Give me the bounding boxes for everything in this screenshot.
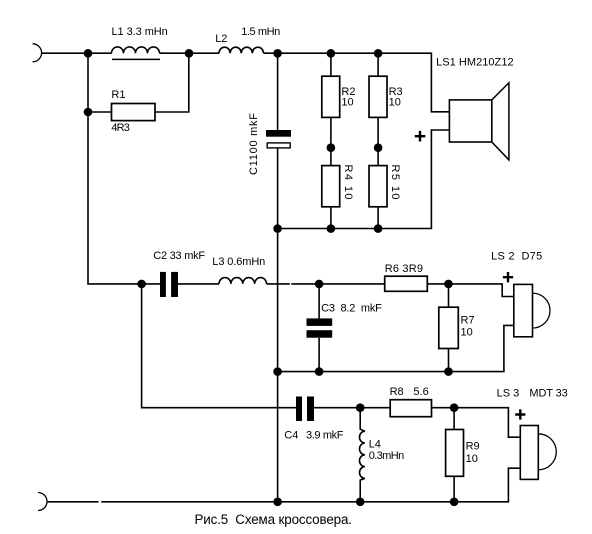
wire C1 top <box>277 53 279 130</box>
wire bottom rail <box>48 468 521 502</box>
node dot L4 bottom <box>356 498 365 507</box>
wire bottom rail of top section to LS1 lower <box>278 130 450 229</box>
resistor R6 <box>385 276 428 291</box>
svg-text:C2 33 mkF: C2 33 mkF <box>153 250 205 262</box>
svg-text:L2: L2 <box>215 33 227 45</box>
resistor R5 <box>369 166 387 207</box>
wire L3 to cross <box>267 283 290 285</box>
svg-text:3.9 mkF: 3.9 mkF <box>306 429 344 441</box>
svg-text:LS 3: LS 3 <box>497 387 520 399</box>
wire C1 bottom <box>277 148 279 228</box>
input terminal bottom <box>38 493 47 511</box>
inductor L3 <box>219 278 267 284</box>
node dot R2-R4 <box>327 143 336 152</box>
wire long vertical node <box>277 229 279 502</box>
node dot C1 bottom <box>273 224 282 233</box>
node dot R9 top <box>450 403 459 412</box>
svg-text:R1: R1 <box>111 89 125 101</box>
svg-text:LS 2 D75: LS 2 D75 <box>491 250 542 262</box>
svg-text:10: 10 <box>389 97 401 109</box>
node dot mid rail left <box>273 367 282 376</box>
svg-text:L4: L4 <box>369 438 381 450</box>
speaker LS1 box <box>449 100 491 142</box>
svg-text:R8: R8 <box>390 386 404 398</box>
svg-text:L3 0.6mHn: L3 0.6mHn <box>212 256 265 268</box>
input terminal top <box>33 44 42 62</box>
resistor R3 <box>369 76 387 117</box>
plus LS1 <box>415 131 426 142</box>
node dot L4 top <box>356 403 365 412</box>
wire C2 junction down and C4 row <box>142 284 296 408</box>
capacitor C1 plate bottom (hollow) <box>267 143 290 148</box>
svg-text:L1 3.3 mHn: L1 3.3 mHn <box>112 26 168 38</box>
wire left vertical to C2 row <box>88 53 160 284</box>
wire R6 to LS2 upper <box>427 284 514 297</box>
L1 core bar <box>112 58 160 60</box>
capacitor C1 plate top (filled) <box>266 130 291 137</box>
wire R1 left <box>88 111 112 113</box>
speaker LS3 box <box>520 426 538 480</box>
node dot C3 bottom <box>315 367 324 376</box>
node dot R7 bottom <box>444 367 453 376</box>
wire R8 to LS3 upper <box>432 408 521 438</box>
capacitor C4 plates <box>296 397 302 422</box>
node dot L1 right <box>185 49 194 58</box>
svg-text:C4: C4 <box>284 429 298 441</box>
svg-text:0.3mHn: 0.3mHn <box>369 450 405 462</box>
node dot C1 top <box>273 49 282 58</box>
svg-text:R4 10: R4 10 <box>342 165 354 200</box>
svg-text:MDT 33: MDT 33 <box>529 387 567 399</box>
node dot R5 bottom <box>374 224 383 233</box>
speaker LS2 box <box>514 284 533 336</box>
plus LS2 <box>503 272 513 282</box>
node dot R1 left <box>84 108 93 117</box>
capacitor C2 plates <box>160 272 166 297</box>
wire mid bottom rail to LS2 lower <box>278 325 514 371</box>
wire R1 right up <box>155 53 189 112</box>
svg-text:4R3: 4R3 <box>111 122 129 134</box>
inductor L2 <box>219 47 263 53</box>
speaker LS2 dome <box>533 293 551 328</box>
plus LS3 <box>515 409 525 419</box>
node dot C2 left <box>137 280 146 289</box>
svg-text:R9: R9 <box>466 441 480 453</box>
node dot R4 bottom <box>327 224 336 233</box>
svg-text:C3 8.2 mkF: C3 8.2 mkF <box>321 303 382 315</box>
svg-text:1.5 mHn: 1.5 mHn <box>241 26 280 38</box>
svg-text:Рис.5 Схема кроссовера.: Рис.5 Схема кроссовера. <box>195 512 353 527</box>
wire top rail left <box>42 52 112 54</box>
svg-text:R6 3R9: R6 3R9 <box>385 263 423 275</box>
node dot R2 top <box>327 49 336 58</box>
svg-text:LS1 HM210Z12: LS1 HM210Z12 <box>436 57 513 69</box>
wire R2 branch <box>330 53 332 228</box>
resistor R2 <box>322 76 340 117</box>
svg-text:5.6: 5.6 <box>413 386 428 398</box>
node dot bottom rail C1 vertical <box>273 498 282 507</box>
wire C4 to R8 <box>314 407 390 409</box>
inductor L1 <box>112 47 160 53</box>
svg-text:R7: R7 <box>461 315 475 327</box>
inductor L4 <box>360 408 365 502</box>
resistor R7 <box>439 307 459 348</box>
wire R7 branch <box>448 284 450 372</box>
wire R3 branch <box>377 53 379 228</box>
wire top rail right to LS1 upper <box>264 53 450 112</box>
capacitor C3 plates <box>307 318 333 326</box>
resistor R9 <box>446 430 464 477</box>
node dot R3-R5 <box>374 143 383 152</box>
node dot R9 bottom <box>450 498 459 507</box>
speaker LS3 dome <box>538 434 556 470</box>
wire C3 branch <box>318 284 320 372</box>
wire cross to R6 <box>291 283 384 285</box>
node dot R3 top <box>374 49 383 58</box>
resistor R4 <box>322 166 340 207</box>
svg-text:10: 10 <box>341 97 353 109</box>
svg-text:R5 10: R5 10 <box>389 165 401 200</box>
node dot R7 top <box>444 280 453 289</box>
svg-text:10: 10 <box>461 327 473 339</box>
node dot input junction <box>84 49 93 58</box>
wire C2 to L3 <box>178 283 219 285</box>
resistor R8 <box>390 400 431 417</box>
wire top rail mid <box>160 52 220 54</box>
svg-text:10: 10 <box>466 453 478 465</box>
svg-text:C1100 mkF: C1100 mkF <box>248 113 260 175</box>
resistor R1 <box>112 104 156 121</box>
speaker LS1 horn <box>492 83 509 160</box>
wire R9 branch <box>453 408 455 502</box>
node dot C3 top <box>315 280 324 289</box>
